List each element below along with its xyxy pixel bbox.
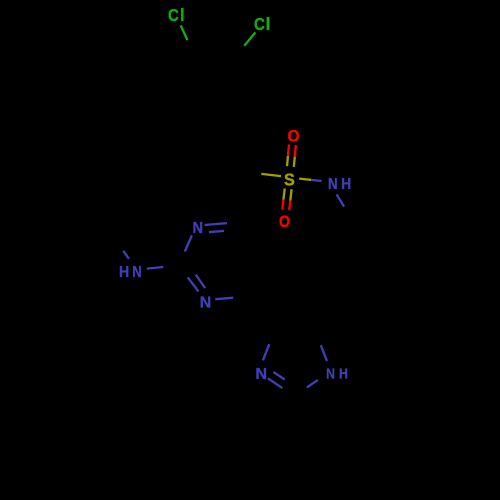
- svg-text:N: N: [328, 176, 338, 193]
- svg-text:O: O: [288, 127, 300, 146]
- svg-text:N: N: [255, 365, 267, 383]
- svg-text:N: N: [132, 264, 141, 281]
- svg-text:l: l: [266, 14, 271, 34]
- svg-text:H: H: [119, 265, 129, 282]
- svg-text:C: C: [254, 14, 265, 35]
- svg-text:S: S: [284, 170, 295, 190]
- svg-text:O: O: [279, 213, 290, 231]
- svg-text:N: N: [326, 365, 335, 381]
- svg-text:N: N: [193, 220, 204, 237]
- svg-text:C: C: [168, 6, 179, 25]
- svg-text:N: N: [200, 295, 212, 312]
- svg-text:l: l: [180, 5, 185, 25]
- svg-text:H: H: [339, 365, 348, 381]
- svg-text:H: H: [341, 176, 351, 193]
